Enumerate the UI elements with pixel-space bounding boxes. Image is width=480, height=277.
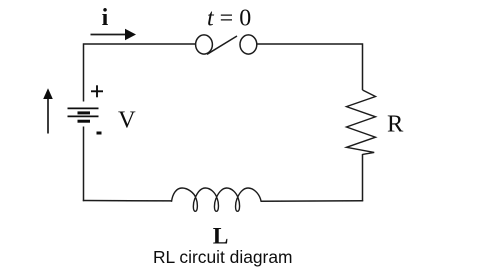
svg-text:R: R (387, 111, 404, 138)
svg-text:L: L (213, 224, 229, 250)
resistor R (347, 90, 376, 154)
voltage direction arrow (43, 88, 53, 133)
svg-text:V: V (118, 107, 136, 134)
current arrow (91, 29, 137, 40)
wire top-left segment (84, 44, 197, 102)
wire bottom-left segment (83, 200, 172, 202)
wire right lower segment (362, 154, 364, 201)
battery + terminal (91, 85, 103, 97)
inductor L (172, 188, 262, 211)
battery - terminal (97, 132, 102, 135)
wire top-right segment (257, 44, 363, 90)
svg-text:i: i (102, 5, 109, 31)
svg-text:t = 0: t = 0 (207, 6, 251, 32)
switch S1 (196, 35, 257, 54)
wire left lower segment (83, 127, 85, 202)
svg-text:RL circuit diagram: RL circuit diagram (153, 247, 293, 267)
wire bottom-right segment (261, 200, 363, 203)
battery V (68, 108, 99, 121)
